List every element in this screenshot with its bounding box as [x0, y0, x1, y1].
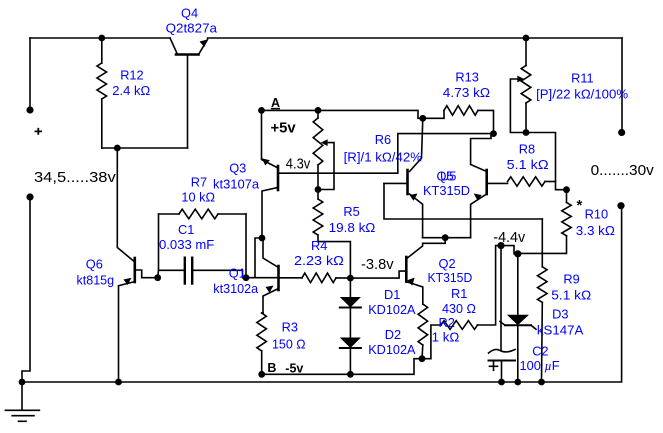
- wire R2 bottom to B rail: [262, 359, 422, 375]
- svg-text:*: *: [577, 197, 583, 214]
- svg-text:-5v: -5v: [285, 361, 303, 375]
- node R11 top junction: [523, 35, 530, 42]
- node plus input terminal: [26, 106, 33, 113]
- transistor Q2: [405, 257, 408, 282]
- wire tail to Q2 collector: [407, 238, 445, 258]
- svg-text:Q4: Q4: [181, 6, 198, 21]
- node ground junction: [19, 379, 26, 386]
- resistor R4: [279, 277, 303, 279]
- node output minus terminal: [617, 202, 624, 209]
- svg-text:kt3107a: kt3107a: [213, 177, 260, 192]
- potentiometer R11: [525, 38, 527, 66]
- resistor R5: [317, 190, 319, 200]
- capacitor C2: [500, 246, 502, 351]
- svg-text:R8: R8: [519, 142, 535, 157]
- potentiometer R6: [317, 110, 319, 118]
- wire top rail left: [30, 37, 170, 39]
- svg-text:19.8 kΩ: 19.8 kΩ: [329, 220, 376, 235]
- resistor R13: [423, 110, 444, 118]
- wire output plus: [621, 38, 623, 133]
- wire top rail right: [208, 37, 623, 39]
- resistor R2: [418, 304, 428, 345]
- svg-text:KD102A: KD102A: [368, 342, 416, 357]
- resistor R7: [159, 213, 180, 215]
- node Q6 emitter rail junction: [115, 379, 122, 386]
- zener D3: [517, 254, 519, 315]
- svg-text:R6: R6: [375, 132, 391, 147]
- svg-text:100 µF: 100 µF: [520, 358, 560, 373]
- svg-text:R7: R7: [191, 174, 207, 189]
- node -4.4v junction 1: [497, 242, 504, 249]
- node R13 left junction: [419, 115, 426, 122]
- svg-text:Q6: Q6: [86, 257, 103, 272]
- resistor R1: [422, 325, 441, 359]
- node C2 rail junction: [498, 379, 505, 386]
- svg-text:-4.4v: -4.4v: [493, 229, 525, 246]
- node R2 bottom junction: [419, 355, 426, 362]
- svg-text:Q1: Q1: [229, 265, 246, 280]
- transistor Q6: [134, 258, 137, 282]
- wire -4.4v node links: [501, 246, 518, 254]
- plus sign input: [35, 128, 42, 135]
- svg-text:150 Ω: 150 Ω: [272, 336, 306, 351]
- plus sign C2: [490, 365, 498, 367]
- wire down to Q6 collector: [117, 148, 135, 262]
- svg-text:B: B: [267, 361, 276, 375]
- node R9 rail junction: [538, 379, 545, 386]
- svg-text:KT315D: KT315D: [428, 270, 473, 285]
- node -3.8v junction: [347, 275, 354, 282]
- transistor Q5 left: [410, 118, 423, 171]
- node D2 bottom junction: [347, 371, 354, 378]
- svg-text:-3.8v: -3.8v: [361, 256, 394, 273]
- svg-text:R9: R9: [563, 272, 579, 287]
- node R13 right junction: [490, 130, 497, 137]
- node output plus terminal: [618, 129, 625, 136]
- wire bottom rail: [22, 206, 622, 382]
- resistor R12: [101, 38, 103, 63]
- svg-text:R11: R11: [571, 70, 594, 85]
- wire C1 box left: [159, 214, 185, 270]
- node D3 rail junction: [514, 379, 521, 386]
- node Q6 base junction: [154, 274, 161, 281]
- node -4.4v junction 2: [514, 250, 521, 257]
- diode D2: [340, 338, 361, 349]
- svg-text:kt3102a: kt3102a: [213, 281, 259, 296]
- wire C1 box right: [245, 214, 247, 278]
- svg-text:R3: R3: [282, 319, 298, 334]
- svg-text:+5v: +5v: [271, 120, 297, 137]
- svg-text:C1: C1: [178, 222, 194, 237]
- svg-text:KT315D: KT315D: [423, 183, 470, 198]
- transistor Q1: [246, 277, 279, 279]
- svg-text:C2: C2: [532, 343, 548, 358]
- node junction base wire: [114, 145, 121, 152]
- svg-text:Q2t827a: Q2t827a: [166, 21, 218, 36]
- resistor R10: [566, 190, 568, 203]
- node minus input terminal: [26, 193, 33, 200]
- svg-text:R13: R13: [455, 69, 478, 84]
- svg-text:4.73 kΩ: 4.73 kΩ: [443, 85, 491, 100]
- wire left rail lower: [22, 197, 30, 382]
- svg-text:5.1 kΩ: 5.1 kΩ: [551, 287, 591, 302]
- svg-text:R2: R2: [439, 315, 455, 330]
- resistor R9: [541, 219, 543, 267]
- svg-text:R5: R5: [343, 204, 359, 219]
- wire left rail to plus terminal: [29, 38, 31, 110]
- svg-text:0.033 mF: 0.033 mF: [159, 237, 214, 252]
- svg-text:U5: U5: [440, 169, 456, 184]
- node R11 bottom junction: [523, 129, 530, 136]
- wire Q5L base down: [384, 183, 542, 219]
- svg-text:R12: R12: [120, 68, 143, 83]
- capacitor C1: [184, 258, 186, 284]
- transistor Q5 right: [485, 170, 488, 194]
- node Q1 base junction: [243, 274, 250, 281]
- node R6 bottom junction: [315, 186, 322, 193]
- svg-text:[R]/1 kΩ/42%: [R]/1 kΩ/42%: [344, 150, 422, 165]
- wire node A rail: [262, 110, 423, 118]
- resistor R8: [508, 177, 545, 186]
- svg-text:Q2: Q2: [439, 256, 456, 271]
- node R8 R10 junction: [563, 186, 570, 193]
- svg-text:[P]/22 kΩ/100%: [P]/22 kΩ/100%: [536, 87, 628, 102]
- svg-text:kt815g: kt815g: [77, 273, 115, 288]
- transistor Q4: [170, 38, 178, 55]
- svg-text:10 kΩ: 10 kΩ: [181, 189, 215, 204]
- svg-text:2.4 kΩ: 2.4 kΩ: [112, 83, 150, 98]
- svg-text:430 Ω: 430 Ω: [442, 301, 476, 316]
- wire Q1 collector to base tie: [255, 238, 262, 278]
- svg-text:D2: D2: [385, 327, 401, 342]
- svg-text:0.......30v: 0.......30v: [591, 162, 655, 179]
- svg-text:D1: D1: [384, 287, 400, 302]
- node Q1 collector junction: [259, 235, 266, 242]
- wire R12 bottom to Q4 base: [102, 147, 188, 149]
- wire R11 bottom to R8: [526, 133, 567, 190]
- svg-text:5.1 kΩ: 5.1 kΩ: [507, 157, 549, 172]
- node R6 top junction: [315, 107, 322, 114]
- svg-text:1 kΩ: 1 kΩ: [432, 330, 460, 345]
- node A: [258, 107, 265, 114]
- svg-text:D3: D3: [552, 307, 568, 322]
- svg-text:R4: R4: [311, 238, 327, 253]
- ground: [21, 382, 23, 410]
- resistor R3: [262, 312, 263, 314]
- svg-text:3.3 kΩ: 3.3 kΩ: [576, 223, 616, 238]
- svg-text:4.3v: 4.3v: [286, 155, 311, 172]
- svg-text:kS147A: kS147A: [537, 322, 584, 337]
- transistor Q3: [277, 166, 280, 190]
- node junction R12 top: [98, 35, 105, 42]
- svg-text:Q3: Q3: [229, 161, 246, 176]
- svg-text:2.23 kΩ: 2.23 kΩ: [294, 253, 344, 268]
- wire diff pair tail: [423, 237, 471, 239]
- diode D1: [349, 278, 351, 297]
- svg-text:KD102A: KD102A: [368, 302, 416, 317]
- svg-text:R1: R1: [451, 286, 467, 301]
- node B junction: [258, 371, 265, 378]
- svg-text:R10: R10: [585, 207, 608, 222]
- svg-text:34,5.....38v: 34,5.....38v: [34, 169, 116, 186]
- node tail junction: [442, 234, 449, 241]
